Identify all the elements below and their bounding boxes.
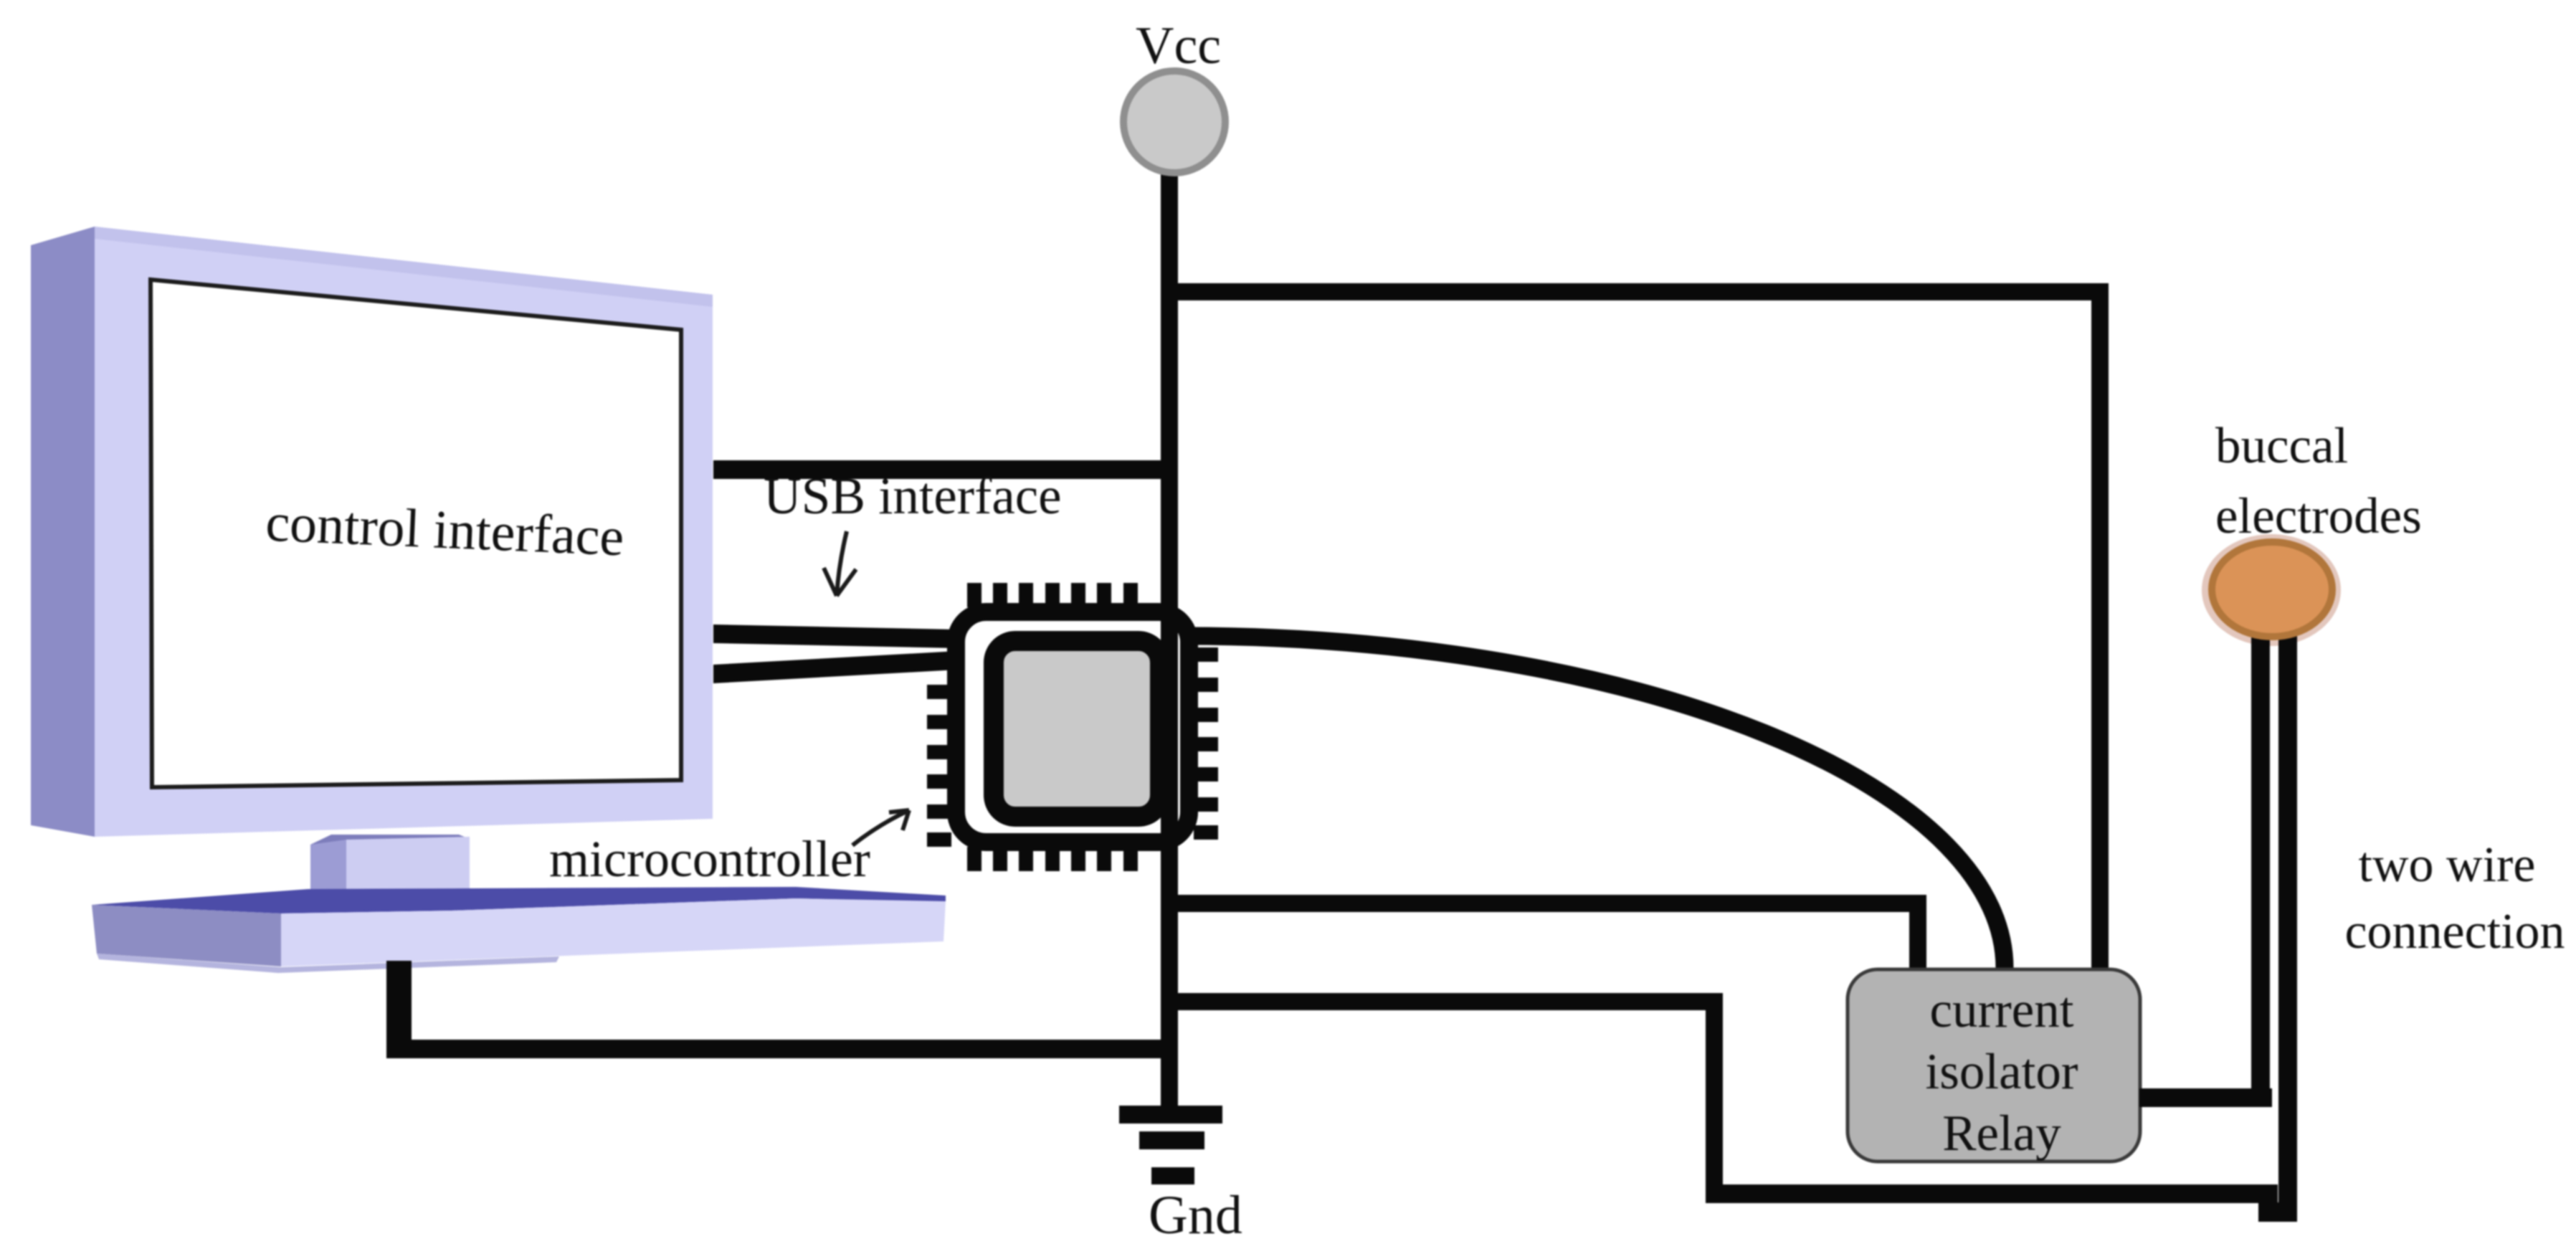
microcontroller U1 pins right xyxy=(1194,647,1218,840)
keyboard base bottom lip xyxy=(97,954,559,973)
svg-text:Vcc: Vcc xyxy=(1136,16,1221,75)
wire right electrode vertical xyxy=(2278,613,2297,1221)
current isolator relay box xyxy=(1848,969,2140,1162)
svg-text:USB interface: USB interface xyxy=(764,467,1062,525)
svg-text:buccal: buccal xyxy=(2215,418,2348,474)
monitor stand top shadow xyxy=(310,835,470,849)
monitor stand front face xyxy=(346,837,470,894)
svg-text:Relay: Relay xyxy=(1942,1106,2061,1162)
wire curved microcontroller to relay xyxy=(1184,636,2005,968)
wire left electrode vertical xyxy=(2251,606,2270,1107)
computer monitor front frame xyxy=(95,227,713,837)
wire relay to left electrode xyxy=(2139,1088,2272,1107)
Vcc terminal circle xyxy=(1123,71,1225,173)
computer monitor screen xyxy=(151,280,681,787)
wire microcontroller to relay horizontal (upper) xyxy=(1161,895,1926,912)
wire lower rail horizontal xyxy=(1161,993,1723,1010)
svg-text:current: current xyxy=(1929,982,2073,1038)
svg-text:two wire: two wire xyxy=(2359,837,2536,893)
svg-text:electrodes: electrodes xyxy=(2215,488,2422,544)
wire upper relay feed vertical xyxy=(1909,895,1926,969)
microcontroller U1 pins top xyxy=(967,583,1138,607)
computer monitor top face strip xyxy=(95,227,713,307)
wire Vcc-Gnd vertical rail xyxy=(1161,171,1178,1106)
svg-text:connection: connection xyxy=(2344,904,2565,959)
microcontroller U1 die xyxy=(994,641,1160,817)
wire USB interface (monitor to Vcc rail) xyxy=(713,460,1178,479)
buccal electrode pad xyxy=(2212,542,2332,637)
wire bottom right step xyxy=(2258,1202,2297,1222)
arrow microcontroller xyxy=(852,810,909,845)
svg-text:Gnd: Gnd xyxy=(1149,1185,1242,1245)
keyboard base front face xyxy=(281,898,946,967)
microcontroller U1 body xyxy=(956,612,1189,842)
wire lower rail vertical down xyxy=(1706,993,1723,1203)
wire monitor to microcontroller upper xyxy=(713,624,957,648)
monitor stand left face xyxy=(310,840,346,894)
wire bottom long horizontal xyxy=(1706,1184,2278,1203)
svg-text:isolator: isolator xyxy=(1926,1044,2078,1100)
wire right rail vertical to relay xyxy=(2091,283,2109,969)
wire computer base to ground rail xyxy=(386,961,412,1058)
buccal electrode halo xyxy=(2202,534,2341,646)
keyboard base left end face xyxy=(92,905,281,967)
keyboard base top face xyxy=(92,887,946,913)
arrow USB interface xyxy=(824,531,856,596)
microcontroller U1 pins left xyxy=(927,685,951,847)
svg-text:microcontroller: microcontroller xyxy=(549,830,870,888)
ground symbol xyxy=(1119,1106,1222,1184)
microcontroller U1 pins bottom xyxy=(967,847,1138,871)
wire Vcc top rail horizontal xyxy=(1161,283,2109,300)
computer monitor left side face xyxy=(31,227,95,837)
wire monitor to microcontroller lower xyxy=(713,651,957,683)
